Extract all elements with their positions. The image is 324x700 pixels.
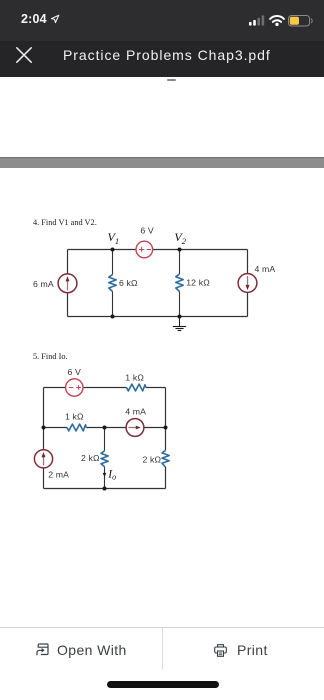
header bar background	[0, 41, 324, 77]
svg-text:4 mA: 4 mA	[255, 264, 276, 274]
wire V1 branch	[112, 250, 114, 317]
current source 4 mA	[238, 274, 257, 293]
wire right branch	[165, 388, 167, 489]
battery icon	[288, 15, 313, 27]
wire middle branch	[104, 428, 106, 489]
open with text	[57, 642, 127, 658]
svg-text:6 V: 6 V	[68, 367, 82, 377]
wire top rail	[44, 387, 166, 389]
svg-text:2 kΩ: 2 kΩ	[143, 454, 162, 464]
resistor 1 kOhm middle	[67, 424, 86, 431]
current Io arrow	[103, 473, 107, 477]
scroll dash remnant	[167, 79, 176, 81]
svg-text:Io: Io	[107, 468, 116, 481]
svg-text:1 kΩ: 1 kΩ	[65, 411, 84, 421]
wifi icon	[269, 15, 285, 26]
current source 4 mA	[126, 419, 144, 437]
svg-text:V2: V2	[174, 230, 186, 246]
svg-text:6 V: 6 V	[140, 226, 154, 236]
svg-text:4 mA: 4 mA	[125, 406, 146, 416]
problem 5 heading	[33, 352, 68, 361]
wire V2 branch	[179, 250, 181, 317]
current source 2 mA	[34, 450, 52, 468]
resistor 2 kOhm right	[162, 450, 169, 467]
wire left branch	[67, 250, 69, 317]
wire middle rail	[44, 427, 166, 429]
svg-text:2 mA: 2 mA	[48, 470, 69, 480]
close X icon	[16, 47, 32, 63]
svg-text:12 kΩ: 12 kΩ	[186, 278, 210, 288]
node dot middle rail	[103, 426, 107, 430]
node dot V2 bottom	[178, 315, 182, 319]
problem 4 heading	[33, 218, 97, 227]
wire top rail	[68, 249, 248, 251]
node dot left middle	[42, 426, 46, 430]
resistor 12 kOhm	[176, 274, 183, 292]
print icon	[214, 644, 227, 657]
node dot V1 top	[111, 248, 115, 252]
wire bottom rail	[68, 316, 248, 318]
resistor 1 kOhm top	[127, 384, 146, 391]
open with icon	[36, 643, 49, 656]
location arrow icon	[50, 14, 60, 24]
wire left branch	[43, 388, 45, 489]
wire bottom rail	[44, 488, 166, 490]
cellular signal bars	[249, 15, 266, 26]
voltage source 6 V	[66, 379, 83, 396]
current source 6 mA	[58, 274, 77, 293]
circuit 5 schematic	[0, 345, 324, 500]
svg-text:6 kΩ: 6 kΩ	[119, 278, 138, 288]
node dot right middle	[164, 426, 168, 430]
print text	[237, 642, 268, 658]
node dot bottom	[103, 487, 107, 491]
svg-text:2 kΩ: 2 kΩ	[81, 453, 100, 463]
resistor 2 kOhm middle	[101, 451, 108, 467]
bottom action bar	[0, 627, 324, 673]
node dot V2 top	[178, 248, 182, 252]
divider between buttons	[162, 628, 163, 670]
svg-text:1 kΩ: 1 kΩ	[125, 373, 144, 383]
voltage source 6 V	[136, 241, 153, 258]
ground	[173, 317, 186, 331]
circuit 4 schematic	[0, 210, 324, 342]
status bar time	[21, 12, 47, 26]
resistor 6 kOhm	[109, 275, 116, 292]
svg-text:6 mA: 6 mA	[33, 279, 54, 289]
wire right branch	[247, 250, 249, 317]
header title	[63, 47, 271, 63]
svg-text:V1: V1	[108, 230, 120, 246]
node dot V1 bottom	[111, 315, 115, 319]
status bar background	[0, 0, 324, 41]
page separator bar	[0, 157, 324, 168]
home indicator	[107, 681, 219, 688]
